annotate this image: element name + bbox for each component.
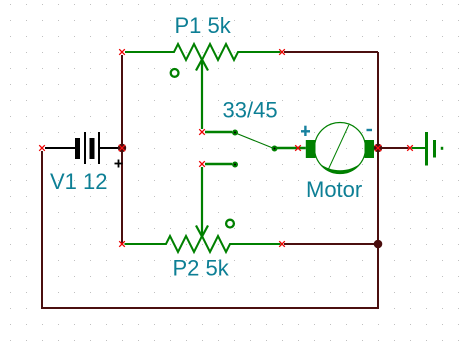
motor commutator thick bottom arc	[319, 163, 362, 174]
switch common contact dot	[273, 147, 277, 151]
potentiometer P2	[125, 236, 281, 252]
connection x-mark P1 right terminal	[279, 49, 285, 55]
battery plus polarity mark	[115, 160, 123, 168]
wire maroon from P2 right terminal to right rail	[284, 243, 378, 245]
connection x-mark switch lower pole	[199, 161, 205, 167]
switch pole contact dot upper	[233, 131, 237, 135]
switch pole contact dot lower	[233, 163, 237, 167]
wire top rail maroon from P1 right terminal to right rail corner	[284, 51, 378, 53]
wire maroon from motor node to ground	[378, 147, 409, 149]
potentiometer P1	[125, 44, 281, 60]
wire right rail vertical maroon	[377, 52, 379, 244]
ground symbol	[412, 132, 443, 166]
connection x-mark P2 left terminal	[119, 241, 125, 247]
junction node at battery plus / left rail	[118, 144, 126, 152]
wire left vertical maroon from top rail to battery node	[121, 55, 123, 148]
motor shaft diagonal line	[329, 125, 349, 169]
connection x-mark P2 right terminal	[279, 241, 285, 247]
motor plus terminal mark	[301, 126, 310, 136]
connection x-mark ground terminal	[407, 145, 413, 151]
motor minus terminal mark	[367, 129, 373, 131]
svg-text:33/45: 33/45	[223, 98, 278, 123]
P2 rotation dot marker	[226, 220, 234, 228]
motor right lead	[374, 147, 377, 149]
connection x-mark switch upper pole	[199, 129, 205, 135]
svg-text:P2 5k: P2 5k	[173, 256, 230, 281]
battery V1	[45, 132, 122, 164]
switch SW (SPDT) pole wires	[205, 132, 306, 164]
motor right brush	[365, 140, 375, 158]
svg-text:V1 12: V1 12	[50, 169, 108, 194]
junction node at motor minus / right rail	[374, 144, 382, 152]
connection x-mark P1 left terminal	[119, 49, 125, 55]
junction node at P2 right / bottom loop	[374, 240, 383, 249]
P1 rotation dot marker	[171, 69, 179, 77]
motor left brush	[306, 140, 316, 158]
P2 wiper arrow and stem	[196, 167, 208, 237]
svg-text:P1 5k: P1 5k	[175, 13, 232, 38]
wire left vertical maroon from battery node down to P2	[121, 148, 123, 245]
wire bottom loop maroon: battery minus down, across bottom, up to P2 right node	[42, 151, 378, 308]
connection x-mark battery minus terminal	[39, 145, 45, 151]
connection x-mark motor plus terminal	[295, 145, 301, 151]
P1 wiper arrow and stem	[196, 60, 208, 130]
motor M	[301, 123, 377, 174]
svg-text:Motor: Motor	[306, 177, 362, 202]
switch blade	[236, 133, 275, 149]
motor body circle	[315, 123, 366, 174]
